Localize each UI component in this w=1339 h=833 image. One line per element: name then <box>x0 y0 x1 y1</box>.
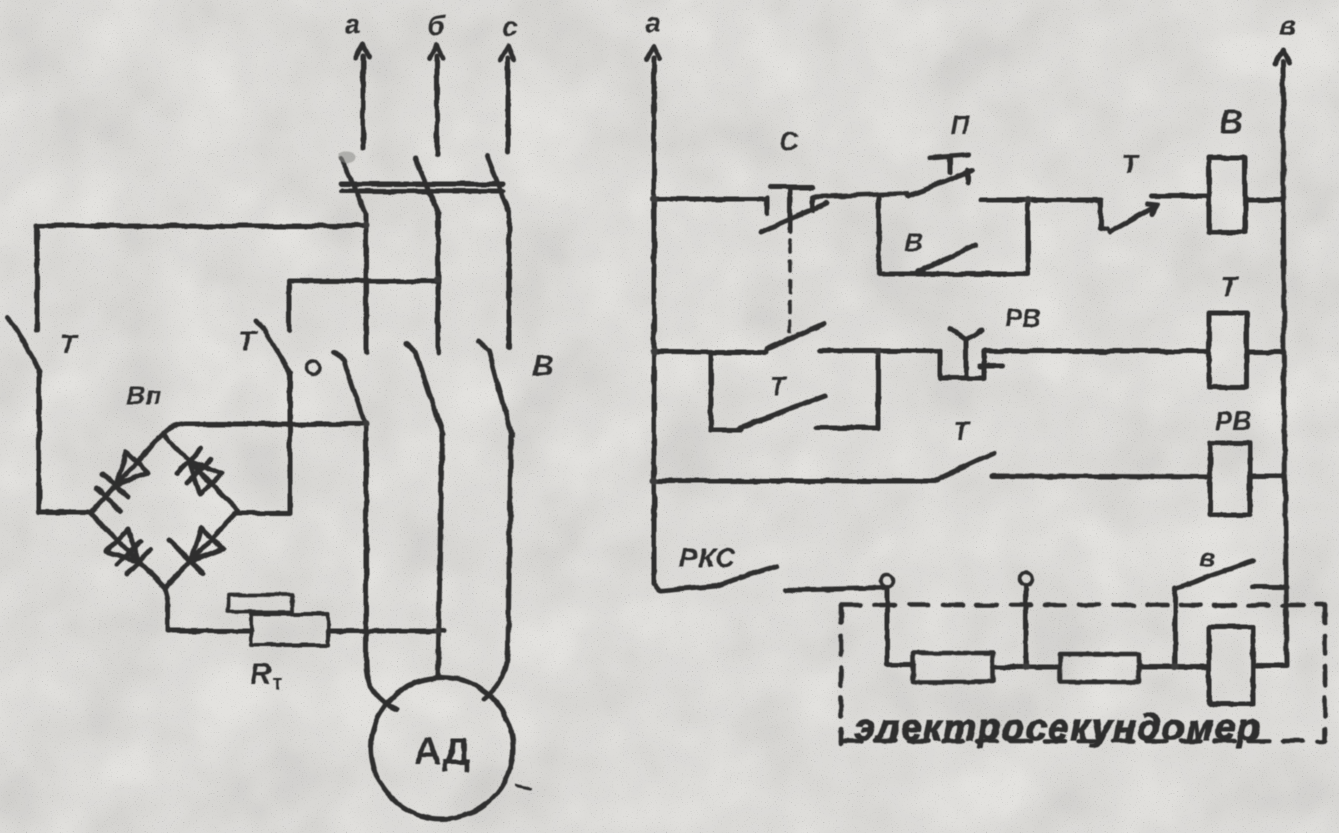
wire: coil V to rail v <box>1245 198 1283 203</box>
control rail a (left) <box>652 58 657 575</box>
contact C-linked (row2 upper blade) <box>767 324 824 349</box>
svg-text:АД: АД <box>414 731 470 773</box>
contactor B pole 1 blade <box>334 352 366 426</box>
wire: row1 from rail a to stop button C <box>654 197 767 202</box>
svg-text:РВ: РВ <box>1005 303 1041 333</box>
diode D1 (upper-left arm) <box>96 452 148 511</box>
phase line b: arrow head <box>429 45 443 59</box>
motor AD circle <box>371 677 513 819</box>
resistor RT upper box <box>228 595 292 612</box>
wire: terminal 1 stem into box <box>885 588 890 665</box>
svg-text:с: с <box>502 11 518 42</box>
wire: RKS to terminal 1 <box>786 588 886 590</box>
rail v arrow head <box>1275 50 1289 64</box>
wire: row1 between C and P <box>812 193 908 197</box>
resistor R1 rectangle <box>913 653 993 682</box>
phase line a: arrow head <box>355 44 369 58</box>
phase line c: top feeder segment <box>506 58 511 152</box>
wire: node to stopwatch coil <box>1175 665 1209 670</box>
start button P: right terminal hook <box>966 170 971 183</box>
wire: terminal 2 stem into box <box>1024 586 1029 665</box>
wire: tap from phase a to brake contact T1 <box>36 224 366 229</box>
svg-text:В: В <box>905 227 924 257</box>
wire: node riser to contact V <box>1173 588 1178 667</box>
contact RKS blade <box>660 566 776 591</box>
wire: bridge DC output (top corner) to phase a node <box>163 424 366 434</box>
wire: T1 upper terminal drop <box>35 226 40 330</box>
wire: row1 after P to contact T <box>981 198 1101 203</box>
resistor R2 rectangle <box>1060 654 1139 682</box>
svg-text:в: в <box>1199 542 1215 572</box>
time contact RV: left step <box>940 351 984 378</box>
stop button C: right terminal hook <box>810 197 815 211</box>
stopwatch box dashed border: right edge <box>1323 605 1328 741</box>
svg-text:Т: Т <box>1122 149 1140 179</box>
aux contact T branch: right riser <box>876 353 881 428</box>
contactor B pole 2 blade <box>406 344 443 435</box>
time contact RV: latch tick <box>980 364 1003 369</box>
aux contact V: bottom wire <box>879 272 1028 277</box>
wire: terminal 1 to resistor R1 <box>887 663 913 668</box>
aux contact V: blade <box>918 245 975 272</box>
diode D4 (lower-right arm) <box>169 528 223 573</box>
wire: row3 from rail a to contact T <box>654 479 934 484</box>
svg-text:Т: Т <box>770 371 788 401</box>
motor lead phase a <box>366 426 397 709</box>
wire: resistor RT to phase b node <box>328 629 444 634</box>
wire: tap from phase b to brake contact T2 <box>289 279 437 284</box>
wire: stopwatch coil to rail v <box>1253 664 1287 669</box>
svg-text:Т: Т <box>953 416 971 446</box>
phase line a: top feeder segment <box>361 56 366 148</box>
aux contact V: right riser <box>1026 200 1031 274</box>
contact T in row3: blade <box>934 453 994 481</box>
phase line c: arrow head <box>500 46 514 60</box>
svg-text:Т: Т <box>239 326 258 356</box>
stop button C: plunger bar and stem <box>770 187 813 232</box>
coil T rectangle <box>1209 313 1247 387</box>
wire: R1 to R2 with terminal2 junction <box>993 665 1060 670</box>
diode D2 (upper-right arm) <box>177 449 222 494</box>
knife switch blade, phase b <box>415 158 439 213</box>
knife switch linkage bar (double line) <box>341 182 503 187</box>
node marker circle near contactor B <box>306 361 320 375</box>
aux contact T branch: bottom left wire <box>711 428 741 433</box>
svg-text:в: в <box>1280 10 1297 41</box>
svg-text:а: а <box>344 8 360 39</box>
svg-text:Т: Т <box>60 329 79 359</box>
rectifier bridge Vp: diamond outline <box>90 434 238 588</box>
terminal circle 2 <box>1020 573 1033 586</box>
rail a arrow head <box>646 46 660 60</box>
wire: T2 lower terminal to bridge right corner <box>238 372 290 513</box>
phase line c: middle segment <box>507 212 512 348</box>
aux contact T blade <box>740 396 825 428</box>
wire: row2 from rail a <box>654 350 766 355</box>
contact V (stopwatch) blade <box>1177 561 1253 588</box>
svg-text:РВ: РВ <box>1215 406 1251 436</box>
wire: bridge DC output (bottom corner) down to resistor line <box>165 588 168 631</box>
svg-text:Т: Т <box>1220 271 1240 302</box>
wire: R2 to node <box>1139 665 1175 670</box>
NC contact T in row1: step down <box>1101 200 1108 229</box>
svg-text:П: П <box>951 110 971 140</box>
svg-text:С: С <box>779 126 799 156</box>
svg-text:Вп: Вп <box>127 380 162 410</box>
brake contact T1 blade <box>7 318 40 371</box>
phase line a: middle segment <box>364 213 369 352</box>
svg-text:а: а <box>645 7 661 38</box>
wire: row2 after upper blade <box>820 349 940 354</box>
svg-text:РКС: РКС <box>679 542 736 573</box>
coil V rectangle <box>1209 158 1245 232</box>
wire: row3 to coil RV <box>992 476 1210 477</box>
stop button C: mechanical link (dashed) <box>788 241 792 336</box>
stop button C: left terminal hook <box>765 198 770 213</box>
knife switch blade, phase a <box>341 158 366 213</box>
aux contact T branch: bottom right wire <box>816 426 878 431</box>
phase line b: middle segment <box>436 213 441 352</box>
time contact RV: pendulum stem and fork <box>950 329 982 378</box>
knife switch blade, phase c <box>487 156 509 212</box>
wire: coil RV to rail v <box>1250 474 1284 479</box>
diode D3 (lower-left arm) <box>106 529 151 574</box>
motor lead phase b <box>438 435 442 676</box>
wire: contact T to coil V <box>1152 194 1209 199</box>
wire: T2 upper terminal drop <box>287 281 292 330</box>
wire: T1 lower terminal to bridge left corner <box>39 371 88 512</box>
motor lead phase c <box>484 436 511 699</box>
svg-text:б: б <box>427 10 445 41</box>
control rail v (right) <box>1283 62 1287 665</box>
start button P: blade <box>908 170 972 196</box>
aux contact V (seal-in): left drop <box>877 195 882 274</box>
wire: bridge bottom to resistor RT <box>168 629 251 634</box>
stopwatch box dashed border: bottom edge <box>841 739 1325 744</box>
coil RV rectangle <box>1210 443 1250 515</box>
stray tick right of motor <box>516 786 530 789</box>
svg-text:В: В <box>532 350 554 383</box>
wire: contact V to rail v <box>1253 585 1287 590</box>
start button P: plunger bar and stem <box>930 155 968 172</box>
smudge mark <box>338 151 356 163</box>
wire: row2 to coil T <box>984 349 1209 354</box>
wire: coil T to rail v <box>1247 350 1283 355</box>
stopwatch coil rectangle <box>1209 627 1253 704</box>
resistor RT lower box <box>251 614 328 645</box>
phase line b: top feeder segment <box>435 56 440 155</box>
aux contact T parallel branch: left drop <box>709 353 714 430</box>
stopwatch box dashed border: left edge <box>839 605 844 744</box>
contactor B pole 3 blade <box>479 342 512 436</box>
contact RKS: rail bottom curve into blade <box>654 575 659 590</box>
stopwatch box dashed border: top edge <box>841 603 1325 608</box>
svg-text:В: В <box>1219 103 1243 140</box>
NC contact T: blade with arrow tip <box>1110 204 1158 232</box>
svg-text:электросекундомер: электросекундомер <box>855 707 1262 748</box>
brake contact T2 blade <box>256 321 290 372</box>
terminal circle 1 <box>881 575 894 588</box>
stop button C: bridging blade <box>761 203 827 232</box>
